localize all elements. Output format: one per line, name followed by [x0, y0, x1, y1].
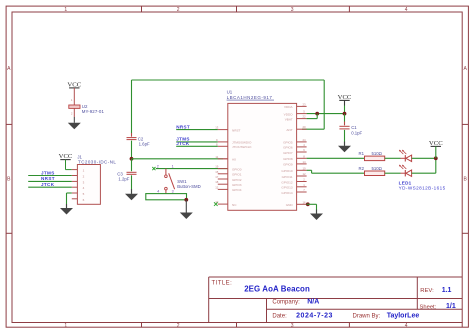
svg-text:24: 24 [302, 138, 306, 142]
svg-text:2: 2 [157, 165, 159, 169]
svg-text:12: 12 [302, 172, 306, 176]
svg-text:23: 23 [302, 102, 306, 106]
svg-text:GND: GND [286, 203, 294, 207]
svg-text:GPIO2: GPIO2 [232, 178, 242, 182]
svg-text:GPIO12: GPIO12 [281, 180, 292, 184]
svg-text:JTMS/SWDIO: JTMS/SWDIO [232, 141, 252, 145]
svg-text:VCC: VCC [67, 81, 81, 88]
svg-text:1.6pF: 1.6pF [139, 142, 150, 147]
svg-text:GPIO11: GPIO11 [282, 175, 293, 179]
svg-text:15: 15 [215, 170, 219, 174]
svg-text:R2: R2 [359, 166, 365, 171]
svg-text:NC: NC [232, 203, 237, 207]
svg-text:11: 11 [215, 155, 218, 159]
svg-text:R1: R1 [359, 151, 365, 156]
svg-text:4: 4 [157, 190, 159, 194]
svg-text:YD-WS2812B-1615: YD-WS2812B-1615 [399, 186, 446, 191]
svg-text:Button-SMD: Button-SMD [177, 184, 200, 189]
svg-text:TITLE:: TITLE: [212, 280, 233, 286]
svg-text:JTCK/SWCLK: JTCK/SWCLK [232, 145, 253, 149]
svg-text:GPIO3: GPIO3 [232, 183, 242, 187]
svg-text:GPIO7: GPIO7 [283, 151, 293, 155]
svg-text:TaylorLee: TaylorLee [387, 313, 420, 320]
svg-text:17: 17 [215, 175, 219, 179]
svg-text:REV:: REV: [420, 288, 434, 294]
svg-text:VCC: VCC [338, 94, 352, 101]
svg-text:3: 3 [172, 190, 174, 194]
svg-text:1: 1 [64, 323, 67, 329]
svg-text:2: 2 [177, 7, 180, 13]
svg-text:GPIO5: GPIO5 [283, 141, 293, 145]
svg-text:18: 18 [215, 180, 219, 184]
svg-text:TC2030-IDC-NL: TC2030-IDC-NL [78, 160, 116, 165]
svg-text:VCC: VCC [429, 140, 443, 147]
svg-text:LBCA1HN2EG-917: LBCA1HN2EG-917 [227, 95, 273, 100]
svg-text:510Ω: 510Ω [372, 166, 383, 171]
svg-text:GPIO10: GPIO10 [281, 169, 292, 173]
svg-text:NRST: NRST [41, 176, 55, 181]
svg-text:1.2pF: 1.2pF [118, 176, 129, 181]
svg-text:1.1: 1.1 [442, 287, 452, 294]
svg-text:C1: C1 [351, 125, 357, 130]
svg-text:MY-927-01: MY-927-01 [82, 109, 105, 114]
svg-text:JTCK: JTCK [176, 141, 190, 146]
svg-text:4: 4 [405, 7, 408, 13]
svg-text:510Ω: 510Ω [372, 151, 383, 156]
svg-text:4: 4 [405, 323, 408, 329]
svg-text:GPIO13: GPIO13 [281, 186, 292, 190]
svg-text:14: 14 [302, 160, 306, 164]
svg-text:A0: A0 [232, 158, 236, 162]
svg-text:2EG AoA Beacon: 2EG AoA Beacon [244, 284, 310, 293]
svg-text:Date:: Date: [272, 314, 287, 320]
svg-text:1: 1 [64, 7, 67, 13]
svg-text:GPIO6: GPIO6 [283, 146, 293, 150]
svg-text:Drawn By:: Drawn By: [353, 314, 381, 320]
svg-text:22: 22 [302, 115, 306, 119]
svg-text:GPIO8: GPIO8 [283, 157, 293, 161]
svg-text:0.1pF: 0.1pF [351, 130, 362, 135]
svg-text:1/1: 1/1 [446, 303, 456, 310]
svg-text:GPIO14: GPIO14 [281, 191, 292, 195]
svg-text:16: 16 [302, 200, 306, 204]
svg-text:JTMS: JTMS [41, 170, 55, 175]
svg-text:GPIO1: GPIO1 [232, 173, 242, 177]
svg-text:VBAT: VBAT [285, 117, 293, 121]
svg-text:VDDO: VDDO [284, 112, 294, 116]
svg-text:1: 1 [172, 165, 174, 169]
svg-text:VDDA: VDDA [284, 105, 294, 109]
svg-text:GPIO0: GPIO0 [232, 167, 242, 171]
svg-text:2024-7-23: 2024-7-23 [296, 313, 333, 320]
svg-text:20: 20 [302, 125, 306, 129]
svg-text:3: 3 [291, 323, 294, 329]
svg-text:12: 12 [215, 185, 219, 189]
svg-text:Sheet:: Sheet: [420, 304, 437, 310]
svg-text:NRST: NRST [232, 128, 241, 132]
svg-text:GPIO4: GPIO4 [232, 188, 242, 192]
svg-text:3: 3 [291, 7, 294, 13]
svg-text:13: 13 [215, 126, 219, 130]
svg-text:19: 19 [215, 165, 219, 169]
svg-text:N/A: N/A [307, 299, 319, 306]
svg-text:NRST: NRST [176, 124, 190, 129]
svg-text:U1: U1 [227, 90, 233, 95]
svg-text:JTCK: JTCK [41, 182, 55, 187]
svg-text:Company:: Company: [272, 300, 300, 306]
svg-text:GPIO9: GPIO9 [283, 163, 293, 167]
svg-text:2: 2 [177, 323, 180, 329]
svg-text:VCC: VCC [59, 153, 73, 160]
svg-text:10: 10 [302, 166, 306, 170]
svg-text:ANT: ANT [286, 128, 292, 132]
